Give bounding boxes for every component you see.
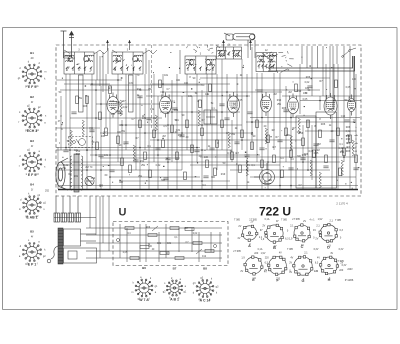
socket diagram A xyxy=(241,225,258,241)
svg-text:2V: 2V xyxy=(262,225,265,228)
svg-text:2M: 2M xyxy=(184,228,187,230)
svg-text:g1: g1 xyxy=(18,77,21,80)
svg-text:R7: R7 xyxy=(201,119,205,122)
svg-text:R12: R12 xyxy=(137,88,142,91)
svg-text:90: 90 xyxy=(182,114,185,117)
svg-text:k: k xyxy=(133,282,135,285)
svg-text:C31: C31 xyxy=(174,109,179,112)
svg-text:0,02: 0,02 xyxy=(116,110,121,113)
chassis earth bus xyxy=(58,189,358,191)
svg-text:0,05: 0,05 xyxy=(346,86,351,89)
horizontal wiring mesh xyxy=(56,78,361,186)
svg-text:97: 97 xyxy=(260,229,263,232)
svg-text:100: 100 xyxy=(352,78,357,81)
svg-text:0,1A: 0,1A xyxy=(265,218,270,221)
svg-text:2V: 2V xyxy=(238,225,241,228)
svg-text:0,02: 0,02 xyxy=(156,164,161,167)
svg-text:A: A xyxy=(248,244,251,248)
svg-text:g1: g1 xyxy=(155,285,158,288)
svg-text:20: 20 xyxy=(331,130,334,133)
coil can circles xyxy=(68,56,273,65)
svg-text:R12: R12 xyxy=(277,99,282,102)
svg-text:25k: 25k xyxy=(78,97,83,100)
svg-text:C7: C7 xyxy=(131,118,135,121)
rectifier valve envelope xyxy=(348,95,356,116)
svg-text:0,1: 0,1 xyxy=(339,143,343,146)
svg-text:1,9: 1,9 xyxy=(241,257,245,260)
svg-text:1k: 1k xyxy=(247,181,250,184)
svg-text:2,1: 2,1 xyxy=(304,252,308,255)
svg-text:C12: C12 xyxy=(341,115,346,118)
svg-text:2,1: 2,1 xyxy=(330,220,334,223)
svg-text:1k: 1k xyxy=(329,124,332,127)
svg-text:0,02: 0,02 xyxy=(123,106,128,109)
valve B4b EAB1 envelope xyxy=(288,94,299,118)
aerial coil unit S1 xyxy=(64,52,94,74)
svg-text:R26: R26 xyxy=(83,105,88,108)
svg-text:4V: 4V xyxy=(290,257,293,260)
tuning gang section 1 xyxy=(79,75,84,112)
svg-text:f: f xyxy=(19,121,20,124)
svg-text:mA: mA xyxy=(354,142,358,145)
solder joints and marks xyxy=(59,47,359,188)
svg-text:2V: 2V xyxy=(240,270,243,273)
svg-text:50: 50 xyxy=(308,89,311,92)
svg-text:0: 0 xyxy=(340,237,342,240)
svg-text:d: d xyxy=(45,159,47,162)
svg-text:90: 90 xyxy=(253,135,256,138)
svg-text:T 085: T 085 xyxy=(287,249,294,251)
svg-text:B3: B3 xyxy=(30,139,34,143)
svg-text:4V: 4V xyxy=(313,229,316,232)
svg-text:R19: R19 xyxy=(297,90,302,93)
svg-text:4V: 4V xyxy=(330,252,333,255)
svg-text:1,9: 1,9 xyxy=(289,238,293,241)
mains dropper / ballast unit xyxy=(58,228,97,264)
svg-text:k: k xyxy=(216,292,218,295)
svg-text:d: d xyxy=(19,155,21,158)
capacitors xyxy=(63,86,358,180)
svg-text:4V: 4V xyxy=(237,237,240,240)
svg-text:g3: g3 xyxy=(200,276,203,279)
svg-text:2M: 2M xyxy=(162,135,165,138)
svg-text:R12: R12 xyxy=(140,160,145,163)
svg-text:4k7: 4k7 xyxy=(235,152,240,155)
svg-text:g3: g3 xyxy=(36,173,39,176)
svg-text:s: s xyxy=(44,165,46,168)
svg-text:60: 60 xyxy=(105,174,108,177)
svg-text:1M: 1M xyxy=(316,149,319,152)
svg-text:5k: 5k xyxy=(67,140,70,143)
output stage screen box 2 xyxy=(316,112,337,188)
svg-text:m: m xyxy=(19,208,21,211)
earth symbol xyxy=(69,32,74,59)
svg-text:2M: 2M xyxy=(273,93,276,96)
valve B5 EL2 envelope xyxy=(324,93,337,119)
svg-text:f: f xyxy=(37,262,38,265)
svg-text:292: 292 xyxy=(45,190,50,193)
svg-text:2 T.085: 2 T.085 xyxy=(249,220,257,222)
svg-text:6,3: 6,3 xyxy=(340,229,344,232)
svg-text:100: 100 xyxy=(148,246,153,248)
svg-text:8: 8 xyxy=(319,118,321,121)
svg-text:4V: 4V xyxy=(264,270,267,273)
svg-text:R7: R7 xyxy=(122,100,126,103)
svg-text:0,02: 0,02 xyxy=(193,233,198,235)
wire junction dots xyxy=(65,79,345,186)
svg-text:6,3V: 6,3V xyxy=(342,265,347,267)
svg-text:0,5: 0,5 xyxy=(163,125,167,128)
svg-text:C31: C31 xyxy=(167,243,172,245)
svg-text:0,05: 0,05 xyxy=(238,99,243,102)
svg-text:97: 97 xyxy=(276,220,279,223)
svg-text:20: 20 xyxy=(199,155,202,158)
svg-text:C31: C31 xyxy=(157,243,162,245)
AF coupling box xyxy=(204,110,217,124)
svg-text:0,1: 0,1 xyxy=(246,164,250,167)
socket diagram E xyxy=(244,256,263,275)
svg-text:g3: g3 xyxy=(193,282,196,285)
svg-text:70: 70 xyxy=(305,92,308,95)
svg-text:g1: g1 xyxy=(36,85,39,88)
svg-text:220: 220 xyxy=(254,252,259,255)
svg-text:C31: C31 xyxy=(104,154,109,157)
svg-text:k: k xyxy=(355,127,357,129)
svg-text:C12: C12 xyxy=(91,177,96,180)
svg-text:R19: R19 xyxy=(346,138,351,141)
socket grid annotations xyxy=(233,218,353,271)
svg-text:m: m xyxy=(131,291,133,294)
IF transformer T1 xyxy=(256,53,277,72)
output valve cathode circle xyxy=(85,176,94,185)
svg-text:15k: 15k xyxy=(148,88,153,91)
svg-text:U: U xyxy=(119,207,127,219)
svg-text:5k: 5k xyxy=(211,102,214,105)
svg-text:100: 100 xyxy=(117,131,122,134)
svg-text:6,3V: 6,3V xyxy=(339,249,344,251)
svg-text:g2: g2 xyxy=(27,104,30,107)
svg-text:g2: g2 xyxy=(43,255,46,258)
svg-text:B5: B5 xyxy=(30,230,34,234)
svg-text:C12: C12 xyxy=(110,100,115,103)
svg-text:90: 90 xyxy=(193,77,196,80)
valve B4a envelope xyxy=(261,92,272,116)
svg-text:C7: C7 xyxy=(103,131,107,134)
svg-text:B7: B7 xyxy=(173,267,177,271)
svg-text:C4: C4 xyxy=(280,157,284,160)
svg-text:5k: 5k xyxy=(167,112,170,115)
svg-text:100: 100 xyxy=(188,95,193,98)
svg-text:g1: g1 xyxy=(37,194,40,197)
svg-text:0,05: 0,05 xyxy=(123,252,128,254)
svg-text:1,9V: 1,9V xyxy=(318,219,323,221)
svg-text:f: f xyxy=(19,165,20,168)
svg-text:2M: 2M xyxy=(317,143,320,146)
svg-text:C: C xyxy=(301,245,304,249)
svg-text:2V: 2V xyxy=(303,220,306,223)
svg-text:s: s xyxy=(43,208,45,211)
svg-text:50: 50 xyxy=(59,91,62,94)
valve pinout B2 ECH3 xyxy=(22,108,42,128)
svg-text:E: E xyxy=(252,278,255,282)
svg-text:4f: 4f xyxy=(31,235,33,239)
svg-text:100: 100 xyxy=(111,113,116,116)
svg-text:2 T.085: 2 T.085 xyxy=(336,261,344,263)
svg-text:k: k xyxy=(19,111,21,114)
svg-text:d: d xyxy=(19,67,21,70)
svg-text:1,9: 1,9 xyxy=(261,238,265,241)
aerial input wires xyxy=(64,45,256,92)
antenna symbol xyxy=(61,31,67,58)
svg-text:8: 8 xyxy=(60,115,62,118)
svg-text:R26: R26 xyxy=(146,227,151,229)
svg-text:R26: R26 xyxy=(306,76,311,79)
svg-text:E F 9: E F 9 xyxy=(28,85,36,89)
svg-text:220: 220 xyxy=(339,269,344,272)
svg-text:12: 12 xyxy=(265,49,268,52)
svg-text:d: d xyxy=(193,291,195,294)
svg-text:C12: C12 xyxy=(297,131,302,134)
svg-text:P 1186: P 1186 xyxy=(345,278,354,282)
svg-text:8: 8 xyxy=(217,142,219,145)
svg-text:220: 220 xyxy=(265,256,270,259)
mains wiring top right xyxy=(268,56,355,100)
socket diagram F xyxy=(268,256,287,275)
output stage screen box 1 xyxy=(296,116,316,188)
dial drive cord assembly xyxy=(224,33,255,47)
svg-text:0: 0 xyxy=(287,229,289,232)
svg-text:100: 100 xyxy=(204,156,209,159)
svg-text:1k: 1k xyxy=(208,145,211,148)
svg-text:15k: 15k xyxy=(231,133,236,136)
svg-text:V: V xyxy=(355,131,357,133)
svg-text:2V: 2V xyxy=(315,238,318,241)
svg-text:C12: C12 xyxy=(202,256,207,258)
svg-text:a: a xyxy=(180,278,182,281)
svg-text:2 1170 4: 2 1170 4 xyxy=(336,202,348,206)
svg-text:R26: R26 xyxy=(346,126,351,129)
svg-text:722 U: 722 U xyxy=(259,207,291,219)
oscillator coil unit S3 xyxy=(185,56,216,74)
svg-text:C7: C7 xyxy=(166,88,170,91)
svg-text:25k: 25k xyxy=(277,103,282,106)
svg-text:R7: R7 xyxy=(68,173,72,176)
valve B1 EF9 envelope xyxy=(107,93,119,118)
resistors (box symbols) xyxy=(76,80,358,180)
svg-text:R26: R26 xyxy=(321,123,326,126)
svg-text:A B 1: A B 1 xyxy=(170,297,179,301)
svg-text:s: s xyxy=(45,115,47,118)
svg-text:70: 70 xyxy=(90,166,93,169)
svg-text:0,1: 0,1 xyxy=(251,164,255,167)
svg-text:g3: g3 xyxy=(216,285,219,288)
svg-text:4f: 4f xyxy=(31,144,33,148)
svg-text:4V: 4V xyxy=(289,271,292,274)
svg-text:R26: R26 xyxy=(76,153,81,156)
svg-text:a: a xyxy=(155,291,157,294)
svg-text:3: 3 xyxy=(200,53,202,56)
svg-text:d: d xyxy=(20,245,22,248)
svg-text:T 085: T 085 xyxy=(234,220,241,222)
svg-text:4V: 4V xyxy=(317,257,320,260)
wiring scribbles near converter xyxy=(187,45,294,73)
svg-text:C31: C31 xyxy=(119,124,124,127)
rear pinout B8 xyxy=(196,280,214,298)
svg-text:4f: 4f xyxy=(31,100,33,104)
svg-text:0,02: 0,02 xyxy=(346,130,351,133)
svg-text:70: 70 xyxy=(137,74,140,77)
svg-text:R12: R12 xyxy=(178,134,183,137)
rear pinout B7 xyxy=(166,280,182,296)
tuning arrows above coils xyxy=(106,40,252,50)
svg-text:0,1: 0,1 xyxy=(211,107,215,110)
component value labels xyxy=(59,74,357,188)
rear pinout B6 xyxy=(135,279,153,297)
svg-text:g1: g1 xyxy=(27,149,30,152)
svg-text:E AB 1: E AB 1 xyxy=(26,215,37,219)
output transformer T3 xyxy=(70,154,83,192)
svg-text:40: 40 xyxy=(152,249,155,251)
voltage table right margin xyxy=(346,126,359,153)
svg-text:a: a xyxy=(38,241,40,244)
svg-text:R19: R19 xyxy=(221,173,226,176)
svg-text:4k7: 4k7 xyxy=(99,185,104,188)
svg-text:8: 8 xyxy=(89,127,91,130)
svg-text:R12: R12 xyxy=(302,154,307,157)
svg-text:4 x 1: 4 x 1 xyxy=(310,220,316,222)
svg-text:a: a xyxy=(140,276,142,279)
svg-text:70: 70 xyxy=(233,103,236,106)
svg-text:B: B xyxy=(273,246,276,250)
svg-text:2 T.085: 2 T.085 xyxy=(233,251,241,253)
svg-text:4V: 4V xyxy=(279,252,282,255)
svg-text:k: k xyxy=(44,77,46,80)
svg-text:2V: 2V xyxy=(289,261,292,264)
svg-text:E P 1: E P 1 xyxy=(28,263,37,267)
svg-text:G: G xyxy=(302,279,305,283)
svg-text:25k: 25k xyxy=(141,164,146,167)
svg-text:2k: 2k xyxy=(266,172,269,175)
svg-text:V: V xyxy=(355,147,357,149)
svg-text:220V: 220V xyxy=(347,269,353,271)
socket diagram G xyxy=(293,256,313,276)
svg-text:a: a xyxy=(39,150,41,153)
svg-text:R26: R26 xyxy=(282,107,287,110)
svg-text:25k: 25k xyxy=(138,175,143,178)
svg-text:R26: R26 xyxy=(346,150,351,153)
svg-text:2,1: 2,1 xyxy=(290,224,294,227)
svg-text:B1: B1 xyxy=(30,51,34,55)
loudspeaker xyxy=(56,158,68,190)
svg-text:0,1A: 0,1A xyxy=(258,248,263,251)
svg-text:0,02: 0,02 xyxy=(305,81,310,84)
svg-text:3: 3 xyxy=(127,49,129,52)
misc chassis notes xyxy=(45,121,63,193)
svg-text:R7: R7 xyxy=(319,80,323,83)
svg-text:T 085: T 085 xyxy=(335,220,342,222)
svg-text:R7: R7 xyxy=(135,137,139,140)
svg-text:B2: B2 xyxy=(30,95,34,99)
svg-text:1,9V: 1,9V xyxy=(261,253,266,255)
svg-text:90: 90 xyxy=(119,144,122,147)
valve pinout B4 EAB1 xyxy=(23,196,42,215)
svg-text:15k: 15k xyxy=(286,134,291,137)
svg-text:T 085: T 085 xyxy=(281,220,288,222)
svg-text:300: 300 xyxy=(119,181,124,184)
svg-text:0,05: 0,05 xyxy=(314,152,319,155)
svg-text:4k7: 4k7 xyxy=(108,87,113,90)
svg-text:2M: 2M xyxy=(85,166,88,169)
svg-text:m: m xyxy=(44,71,46,74)
svg-text:25k: 25k xyxy=(268,179,273,182)
svg-text:a: a xyxy=(19,255,21,258)
svg-text:B4: B4 xyxy=(30,183,34,187)
svg-text:300: 300 xyxy=(211,176,216,179)
svg-text:2M: 2M xyxy=(166,102,169,105)
svg-text:g1: g1 xyxy=(43,202,46,205)
socket diagram H xyxy=(319,256,338,275)
svg-text:0,1: 0,1 xyxy=(175,119,179,122)
svg-text:1M: 1M xyxy=(271,129,274,132)
svg-text:47: 47 xyxy=(58,121,61,123)
mains cable xyxy=(47,246,58,263)
svg-text:1f: 1f xyxy=(31,188,33,192)
svg-text:W: W xyxy=(355,151,358,153)
svg-text:C4: C4 xyxy=(128,233,132,235)
svg-text:2k: 2k xyxy=(240,74,243,77)
svg-text:100: 100 xyxy=(176,79,181,82)
svg-text:R7: R7 xyxy=(275,136,279,139)
svg-text:20: 20 xyxy=(264,125,267,128)
svg-text:ECH 3: ECH 3 xyxy=(27,129,37,133)
svg-text:10k: 10k xyxy=(164,74,169,77)
svg-text:g2: g2 xyxy=(38,106,41,109)
svg-text:100: 100 xyxy=(101,135,106,138)
svg-text:C4: C4 xyxy=(290,158,294,161)
svg-text:V: V xyxy=(355,139,357,141)
svg-text:4k7: 4k7 xyxy=(346,146,351,149)
svg-text:2,1: 2,1 xyxy=(316,224,320,227)
svg-text:B8: B8 xyxy=(203,267,207,271)
valve pinout B3 EF9 xyxy=(22,152,42,172)
svg-text:d: d xyxy=(20,198,22,201)
svg-text:k: k xyxy=(28,192,30,195)
shield partition dashed line xyxy=(151,45,153,128)
svg-text:k: k xyxy=(211,278,213,281)
svg-text:a: a xyxy=(185,285,187,288)
svg-text:15k: 15k xyxy=(121,130,126,133)
svg-text:s: s xyxy=(28,239,30,242)
pickup jack dashed box xyxy=(69,137,93,148)
RF coil unit S2 xyxy=(112,52,143,74)
svg-text:k: k xyxy=(150,277,152,280)
svg-text:0,05: 0,05 xyxy=(309,150,314,153)
svg-text:g2: g2 xyxy=(163,290,166,293)
svg-text:6,3V: 6,3V xyxy=(314,249,319,251)
svg-text:2k: 2k xyxy=(137,94,140,97)
svg-text:50: 50 xyxy=(202,84,205,87)
svg-text:g1: g1 xyxy=(184,291,187,294)
svg-text:2 T.085: 2 T.085 xyxy=(292,219,300,221)
svg-text:k: k xyxy=(44,249,46,252)
svg-text:A C 14: A C 14 xyxy=(200,299,211,303)
svg-text:0,05: 0,05 xyxy=(303,98,308,101)
svg-text:40: 40 xyxy=(186,136,189,139)
svg-text:2k: 2k xyxy=(235,127,238,130)
svg-text:H: H xyxy=(328,278,331,282)
svg-text:100: 100 xyxy=(184,82,189,85)
svg-text:50: 50 xyxy=(223,162,226,165)
